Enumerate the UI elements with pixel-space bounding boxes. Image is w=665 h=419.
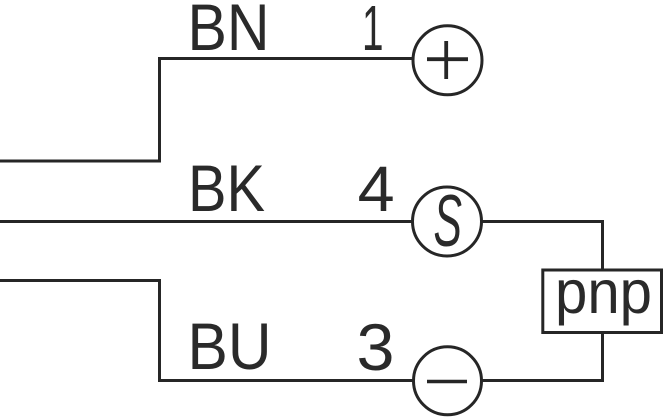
- svg-text:S: S: [434, 181, 463, 262]
- wire pnp to minus: [482, 333, 603, 381]
- wire S to pnp: [481, 222, 603, 271]
- node minus (pin 3): [414, 347, 482, 415]
- node plus (pin 1): [413, 26, 482, 95]
- node S (pin 4): [413, 181, 482, 262]
- wire BN: [0, 59, 414, 162]
- svg-text:pnp: pnp: [555, 258, 652, 326]
- wire BK: [0, 220, 414, 223]
- wire BU: [0, 281, 414, 381]
- svg-text:1: 1: [362, 0, 384, 64]
- svg-text:4: 4: [358, 153, 395, 225]
- svg-text:BU: BU: [188, 309, 272, 383]
- svg-text:BN: BN: [188, 0, 270, 64]
- svg-text:BK: BK: [188, 151, 265, 225]
- svg-text:3: 3: [357, 310, 395, 384]
- pnp box: [543, 270, 662, 333]
